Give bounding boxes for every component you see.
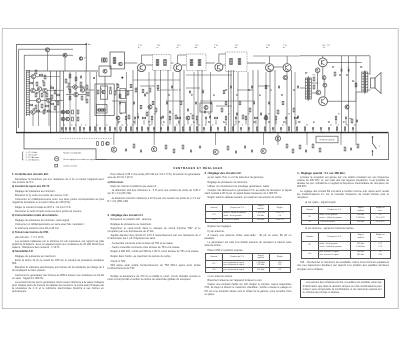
transistor T12 [138,64,146,72]
svg-text:T18: T18 [266,45,270,47]
wire top collect [142,54,153,56]
svg-text:T14: T14 [177,45,181,47]
svg-text:PRISE ISOLATEUR: PRISE ISOLATEUR [320,139,336,142]
cap above oscillator [102,58,108,62]
wire lower x356 [355,133,357,145]
wire vert T13 [177,55,179,63]
switch antenna [373,137,377,149]
wire drop x173 [172,72,174,133]
wire chain e [206,62,215,64]
wire fe drop2 [39,91,41,98]
wire x275 drop [274,70,276,133]
wire drop x238 [237,72,239,133]
prise isolateur box [316,136,338,143]
diode a [322,76,326,80]
wire x50 down [50,71,52,133]
legend brace [21,152,24,161]
lower-left resistors [72,110,74,114]
wire drv in [300,87,306,89]
detector transistor [148,105,152,109]
wire rail x22 [23,55,25,132]
wire speaker top [368,73,370,75]
bus-side component row [61,127,63,130]
wire y71 feed [27,70,98,72]
wire x287 drop [286,70,288,133]
title CENTRAGES ET REGLAGES [148,166,248,170]
wire chain f [223,64,225,66]
transistor T11b [66,110,70,114]
svg-text:Vis de réglage accessible par: Vis de réglage accessible par rapport au… [63,158,106,161]
lower parts a [97,142,99,146]
oscillator trimmer [103,69,107,73]
IF lower RC cluster [114,91,116,95]
ferrite antenna L1 [26,70,28,116]
wire x233.5 drop [233,70,235,133]
transistor bias b [316,90,321,95]
transistor T10 [80,88,84,92]
wire fe drop1 [33,79,35,89]
output transformer TR2 [362,72,364,92]
wire out chain3 [324,87,326,97]
wire lower x263.5 [263,133,265,145]
wire mixer c [85,89,94,91]
text column 1 [12,173,104,294]
wire x56 down [56,71,58,133]
wire fe row2 [29,90,31,92]
wire drop x149 [148,72,150,133]
wire y49 [19,48,73,50]
wire drop x295 [294,72,296,133]
wire out collector bot [328,100,357,102]
wire lower x113.9 [113,133,115,145]
out lower parts [351,119,353,123]
volume pot line [200,100,255,102]
wire rail x19 [18,49,20,128]
wire fe drop4 [48,103,50,126]
box module M2b [120,103,126,114]
wire vert T14 [218,54,220,63]
box module M2a [120,89,126,99]
svg-text:Contact châssis: Contact châssis [63,165,77,168]
wire x160.5 drop [160,70,162,133]
driver transformer TR1 [305,78,307,99]
transistor L5 [275,136,280,141]
wire out chain2 [323,80,325,84]
wire x341 drop [341,56,343,133]
wire y55 [24,54,73,56]
component value labels [34,72,35,75]
wire vert T12 [141,55,143,63]
wire drop x90 [89,72,91,133]
wire y75 link [186,74,232,76]
svg-text:T17: T17 [235,45,239,47]
wire drop x96.5 [96,72,98,133]
wire chain a [124,62,137,64]
svg-text:T12: T12 [138,45,142,47]
wire y80 link [133,79,180,81]
trimmer CV1 [46,48,50,52]
wire drop x76 [75,72,77,133]
wire left rail x16 [15,44,17,132]
wire vert T16 [286,56,288,63]
node antenna junction [85,43,87,45]
wire x356 drop [355,56,357,133]
transistor bias c [345,105,349,109]
module M1 sub circles [98,109,101,112]
svg-text:T13: T13 [157,45,161,47]
wire chain d [182,64,187,66]
svg-text:4 - GO Antenne: 4 - GO Antenne [26,158,41,161]
wire x198 drop [197,70,199,133]
wire x228.5 drop [228,70,230,133]
transistor T17 output [318,58,327,67]
trimmer C50 [79,57,82,60]
svg-text:T16: T16 [214,45,218,47]
module M1 inner box [100,86,107,99]
module M1 sub box [97,105,108,114]
wire vert T15 [269,56,271,63]
electrolytic C2 [347,69,349,72]
resistor R out [355,83,357,87]
wire drop x194 [193,72,195,133]
wire x258 drop [257,70,259,133]
wire x86 down [85,44,87,71]
wire drop x126.5 [126,72,128,133]
transistor T8 [73,85,77,89]
wire lower x307 [306,133,308,145]
wire chain g [247,62,265,64]
wire fe row4 [29,111,31,113]
wire mid links [115,90,133,92]
wire trim drops [47,52,49,71]
transistor T15 [266,64,274,72]
IF transformer box IF1 [153,55,171,71]
wire out collector top [327,61,362,63]
IF2 coils [190,60,193,66]
wire out bias [317,73,319,91]
transistor T14 [215,63,223,71]
transistor T2 [31,88,35,92]
module junction dots [121,77,123,79]
wire dashed AGC [60,137,112,139]
svg-text:T19: T19 [283,45,287,47]
wire x180 drop [179,70,181,133]
transistor L3 [213,149,218,154]
wire x370 drop [369,56,371,74]
wire x322 top [322,56,324,58]
transistor L2 [152,147,157,152]
wire drop x266 [265,72,267,133]
bus junction dots [23,132,25,134]
box IF input [110,52,124,69]
IF transformer box IF3 [226,52,248,71]
transistor T6 [47,98,51,102]
IF transformer box IF2 [187,54,207,71]
mixer parts extra [69,74,71,78]
transistor T5 [36,98,40,102]
box oscillator [99,66,111,76]
text column 4 [297,172,389,298]
svg-text:S: S [379,146,381,148]
resistor R out2 [334,72,336,76]
wire main bus (chassis) [16,132,389,134]
lower right parts [344,147,346,151]
legend chassis symbol [55,164,58,167]
wire mixer b [66,94,74,96]
wire fe row1 [29,76,31,78]
wire x137.5 drop [137,70,139,133]
wire x155 drop [154,70,156,133]
electrolytic C1 [340,69,342,72]
text column 2 [108,173,201,282]
transistor T11d [66,117,70,121]
wire chain h [274,66,283,68]
volume pot [200,103,212,112]
svg-text:Repère voir légende: Repère voir légende [63,152,82,154]
wire lower x215.7 [215,133,217,145]
transistor T7 [31,110,35,114]
transistor T11c [61,117,65,121]
wire drop x70 [69,72,71,133]
wire lower x154.1 [153,133,155,145]
module M1 parts [102,90,105,93]
IF input coil [113,58,116,64]
wire chain b [146,64,153,66]
diode b [323,83,327,87]
wire x60 down [59,71,61,133]
transistor T1 [31,74,35,78]
wire x270 drop [269,70,271,133]
IF3 coils [230,59,233,65]
wire osc down [104,76,106,132]
wire fe drop5 [38,103,40,126]
legend screw symbol [55,157,59,161]
mixer RC cluster [68,83,70,87]
transistor T11a [61,110,65,114]
front-end RC cluster [35,70,37,74]
svg-text:T15: T15 [195,45,199,47]
transistor T3 [37,87,41,91]
wire module drop [116,84,118,133]
wire lower section outline [24,133,389,159]
transistor T4 [43,88,47,92]
wire y55.8 [300,55,370,57]
bias resistors [313,77,315,81]
transistor L4 [261,148,266,153]
transistor T16 [283,64,291,72]
mid component row [116,116,120,120]
wire x291.5 drop [291,70,293,133]
wire speaker bottom [368,89,370,91]
IF1 coils [156,60,159,66]
wire lower x341 [340,133,342,145]
speaker HP [371,78,376,88]
wire drop x210.5 [210,72,212,133]
thermistor [283,75,287,79]
lower RC scatter [125,149,127,152]
wire x168 drop [167,70,169,133]
extra RC scatter [117,84,119,87]
wire top bus [16,43,86,45]
wire x133 drop [132,70,134,133]
transistor T9 [74,92,78,96]
wire x184 drop [183,70,185,133]
wire out chain1 [322,67,324,76]
wire lower x278 [277,133,279,145]
wire fe row3 [29,100,36,102]
wire chain c [171,62,174,64]
transistor L1 [111,147,116,152]
transistor T13 [174,64,182,72]
wire x348 drop [348,56,350,133]
wire x202 drop [201,70,203,133]
wire drop x248 [247,72,249,133]
trimmer CV2 [63,53,67,57]
wire x231 drop [230,70,232,133]
box module M1 [95,84,114,115]
text column 3 [205,172,292,297]
wire x253 drop [252,70,254,133]
wire y56 rail [253,55,300,57]
wire fe drop6 [32,114,34,126]
transistor bias a [315,68,320,73]
transistor T18 output [319,97,328,106]
wire x63 down [63,71,65,133]
svg-text:Ant: Ant [88,43,91,46]
wire mixer a [66,86,73,88]
wire fe drop3 [44,93,46,110]
